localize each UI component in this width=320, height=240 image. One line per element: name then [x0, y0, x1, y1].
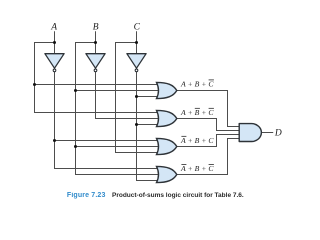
svg-text:A + B + C: A + B + C	[180, 136, 214, 145]
svg-text:Figure 7.23: Figure 7.23	[67, 192, 106, 199]
svg-text:D: D	[274, 129, 282, 139]
svg-text:C: C	[134, 22, 141, 32]
svg-text:A: A	[50, 22, 57, 32]
svg-text:A + B + C: A + B + C	[180, 164, 214, 173]
svg-text:A + B + C: A + B + C	[180, 80, 214, 89]
svg-text:B: B	[93, 22, 99, 32]
svg-text:A + B + C: A + B + C	[180, 108, 214, 117]
svg-text:Product-of-sums logic circuit: Product-of-sums logic circuit for Table …	[112, 192, 244, 199]
